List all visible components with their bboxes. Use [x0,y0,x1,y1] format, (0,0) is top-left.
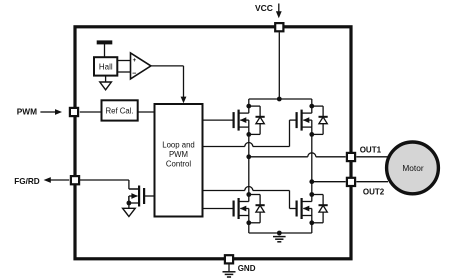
svg-text:VCC: VCC [255,3,273,13]
svg-text:GND: GND [238,264,256,273]
svg-text:Ref Cal.: Ref Cal. [106,107,134,116]
svg-text:Hall: Hall [99,63,113,72]
svg-text:FG/RD: FG/RD [14,177,40,186]
svg-text:Motor: Motor [402,163,423,173]
svg-text:−: − [132,68,136,77]
svg-text:OUT2: OUT2 [363,187,385,196]
svg-text:PWM: PWM [17,107,37,117]
svg-text:Loop and: Loop and [162,141,195,150]
svg-text:Control: Control [166,159,191,168]
svg-text:PWM: PWM [169,150,188,159]
svg-text:OUT1: OUT1 [360,145,382,154]
svg-text:+: + [133,57,137,64]
